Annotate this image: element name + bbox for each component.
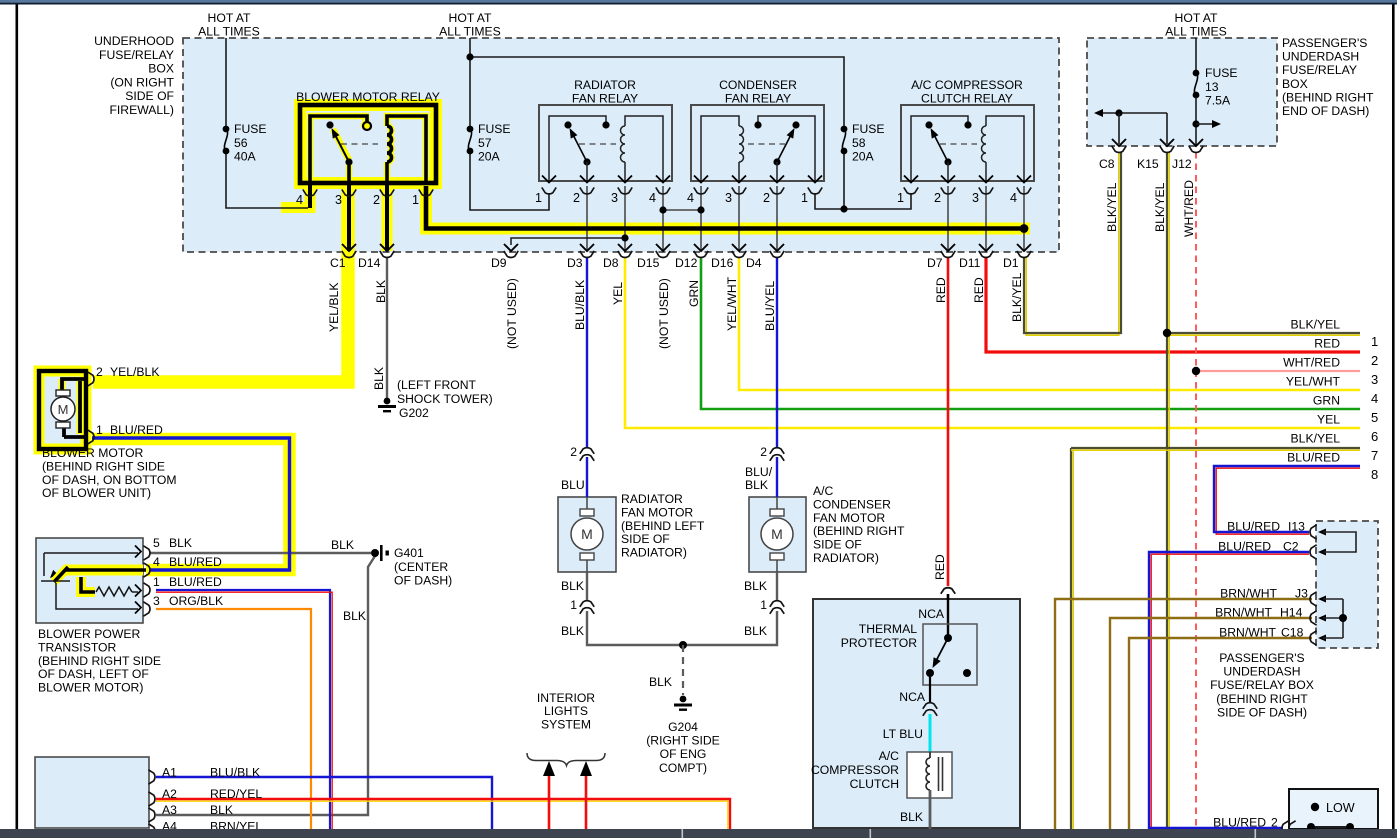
svg-text:BRN/WHT: BRN/WHT bbox=[1220, 587, 1277, 601]
wire WHT/RED: J12 dashed down to bottom bbox=[1195, 152, 1197, 829]
svg-text:(BEHIND RIGHT SIDE: (BEHIND RIGHT SIDE bbox=[38, 654, 161, 668]
wire BLU/RED: C2 down to LOW switch pin 2 bbox=[1151, 554, 1309, 830]
svg-text:K15: K15 bbox=[1137, 157, 1159, 171]
highlight band: hot feed bus from blower relay pin 1 bbox=[426, 188, 1030, 229]
svg-text:BLU/RED: BLU/RED bbox=[169, 575, 222, 589]
svg-text:5: 5 bbox=[1371, 410, 1378, 425]
svg-text:2: 2 bbox=[373, 193, 380, 207]
svg-text:FUSE: FUSE bbox=[234, 122, 267, 136]
svg-text:BLK: BLK bbox=[745, 478, 768, 492]
svg-text:BLU/RED: BLU/RED bbox=[169, 555, 222, 569]
svg-text:(ON RIGHT: (ON RIGHT bbox=[110, 75, 174, 89]
svg-text:2: 2 bbox=[934, 191, 941, 205]
ground G204 bbox=[680, 696, 687, 703]
wire RED: D11 to row 2 bbox=[986, 257, 1360, 352]
wire: condenser relay pin 3 to D16 bbox=[738, 186, 740, 251]
svg-text:OF DASH, ON BOTTOM: OF DASH, ON BOTTOM bbox=[42, 473, 177, 487]
svg-text:RED/YEL: RED/YEL bbox=[210, 787, 262, 801]
svg-text:BLU/YEL: BLU/YEL bbox=[763, 281, 777, 331]
svg-text:ALL TIMES: ALL TIMES bbox=[439, 25, 501, 39]
wire BLK/YEL: row 7 from bottom vertical to edge bbox=[1072, 450, 1074, 829]
connector exits at underhood box bottom bbox=[342, 244, 356, 251]
svg-text:END OF DASH): END OF DASH) bbox=[1282, 104, 1369, 118]
svg-text:4: 4 bbox=[296, 193, 303, 207]
highlight glow: blower motor relay box bbox=[300, 105, 436, 183]
svg-text:(CENTER: (CENTER bbox=[394, 560, 448, 574]
svg-text:(BEHIND LEFT: (BEHIND LEFT bbox=[621, 519, 705, 533]
svg-text:M: M bbox=[58, 402, 69, 417]
wire: C8 exit bbox=[1118, 113, 1120, 144]
svg-text:OF DASH): OF DASH) bbox=[394, 574, 452, 588]
blower power transistor box bbox=[36, 538, 143, 623]
svg-text:RED: RED bbox=[972, 277, 986, 303]
a/c compressor clutch box and coil bbox=[907, 752, 952, 798]
junction: fuse 58 node bbox=[840, 205, 847, 212]
right box connectors I13 C2 bbox=[1310, 525, 1317, 539]
wire BLK dashed to G204 bbox=[682, 645, 684, 695]
svg-text:3: 3 bbox=[972, 191, 979, 205]
wire: condenser relay pin 2 to D4 bbox=[776, 186, 778, 251]
highlight band: relay pin 4 corner to fuse 56 feed bbox=[281, 186, 310, 208]
junction: bus to a/c relay pin 4 / D1 bbox=[1020, 224, 1029, 233]
svg-text:PASSENGER'S: PASSENGER'S bbox=[1282, 36, 1367, 50]
wire BRN/YEL: A4 row (under bar) bbox=[156, 830, 420, 832]
wire BLK: radiator motor to ground junction bbox=[586, 572, 588, 601]
svg-text:I13: I13 bbox=[1288, 520, 1305, 534]
svg-text:BLU/RED: BLU/RED bbox=[110, 423, 163, 437]
svg-text:BLU/RED: BLU/RED bbox=[1218, 540, 1271, 554]
svg-text:UNDERDASH: UNDERDASH bbox=[1282, 50, 1359, 64]
wire: a/c relay pin 2 to D7 bbox=[947, 186, 949, 251]
svg-text:(LEFT FRONT: (LEFT FRONT bbox=[397, 378, 477, 392]
svg-text:BLK/YEL: BLK/YEL bbox=[1153, 182, 1167, 232]
junction: J12 row 3 node bbox=[1192, 367, 1200, 375]
svg-text:RADIATOR: RADIATOR bbox=[621, 492, 683, 506]
svg-text:D1: D1 bbox=[1003, 256, 1019, 270]
svg-text:J12: J12 bbox=[1172, 157, 1192, 171]
svg-text:WHT/RED: WHT/RED bbox=[1182, 180, 1196, 237]
blower motor (highlighted) symbol bbox=[39, 371, 86, 449]
svg-text:M: M bbox=[581, 526, 593, 542]
wire WHT/RED: row 3 to edge bbox=[1200, 370, 1360, 372]
svg-text:5: 5 bbox=[153, 536, 160, 550]
relay: radiator fan relay with pins 1,2,3,4 bbox=[539, 105, 672, 181]
junction: D9-D8 node bbox=[621, 234, 628, 241]
inline connector 1 below radiator fan motor bbox=[580, 601, 594, 607]
svg-text:HOT AT: HOT AT bbox=[1175, 11, 1218, 25]
svg-text:BLU/BLK: BLU/BLK bbox=[210, 766, 260, 780]
svg-text:RED: RED bbox=[1314, 337, 1340, 351]
wire: D9 jog to D8 node bbox=[511, 238, 625, 245]
svg-text:D16: D16 bbox=[711, 256, 734, 270]
svg-text:BLK: BLK bbox=[372, 367, 386, 390]
thermal protector switch bbox=[944, 634, 952, 642]
wire BLK: transistor pin 5 to G401 bbox=[150, 552, 371, 554]
svg-text:A/C COMPRESSOR: A/C COMPRESSOR bbox=[911, 78, 1023, 92]
svg-text:D14: D14 bbox=[358, 256, 381, 270]
junction: motor grounds bbox=[679, 641, 687, 649]
svg-text:LT BLU: LT BLU bbox=[883, 727, 923, 741]
svg-text:BLK: BLK bbox=[331, 538, 354, 552]
svg-text:4: 4 bbox=[1371, 391, 1378, 406]
svg-text:ALL TIMES: ALL TIMES bbox=[198, 25, 260, 39]
svg-text:(NOT USED): (NOT USED) bbox=[657, 278, 671, 349]
svg-text:(BEHIND RIGHT: (BEHIND RIGHT bbox=[1282, 90, 1374, 104]
svg-text:1: 1 bbox=[535, 191, 542, 205]
wire BRN/WHT: C18 row and bottom vertical bbox=[1129, 638, 1312, 829]
motor symbol: condenser fan motor bbox=[776, 497, 778, 510]
svg-text:20A: 20A bbox=[852, 150, 875, 164]
svg-text:D15: D15 bbox=[637, 256, 660, 270]
svg-text:CONDENSER: CONDENSER bbox=[813, 497, 891, 511]
svg-text:BLK/YEL: BLK/YEL bbox=[1010, 272, 1024, 322]
svg-text:RADIATOR): RADIATOR) bbox=[813, 551, 879, 565]
svg-text:D11: D11 bbox=[959, 256, 981, 270]
svg-text:8: 8 bbox=[1371, 467, 1378, 482]
wire BRN/WHT: J3 row and bottom vertical bbox=[1055, 599, 1312, 829]
highlight band: YEL/BLK wire relay pin3-C1 to blower motor pin 2 bbox=[93, 186, 348, 382]
svg-text:FAN MOTOR: FAN MOTOR bbox=[813, 511, 885, 525]
svg-text:HOT AT: HOT AT bbox=[208, 11, 251, 25]
svg-text:(BEHIND RIGHT: (BEHIND RIGHT bbox=[1216, 692, 1308, 706]
wire: HOT AT ALL TIMES feed 2 to fuse 57 bbox=[469, 38, 471, 126]
LOW box connector 2 bbox=[1282, 821, 1289, 835]
svg-text:LIGHTS: LIGHTS bbox=[544, 704, 588, 718]
relay: a/c compressor clutch relay with pins 1,2,3,4 bbox=[901, 105, 1034, 181]
svg-text:WHT/RED: WHT/RED bbox=[1283, 356, 1340, 370]
inline connector 2 above radiator fan motor bbox=[580, 448, 594, 454]
svg-text:4: 4 bbox=[153, 555, 160, 569]
svg-text:BLOWER MOTOR RELAY: BLOWER MOTOR RELAY bbox=[296, 90, 440, 104]
wire RED: D7 to thermal protector bbox=[947, 257, 950, 586]
svg-text:BLK: BLK bbox=[169, 536, 192, 550]
svg-text:UNDERHOOD: UNDERHOOD bbox=[94, 34, 174, 48]
highlight band: relay pin 2 to D14 bbox=[382, 186, 393, 251]
junction: feed 2 branch bbox=[466, 53, 473, 60]
svg-text:2: 2 bbox=[573, 191, 580, 205]
wire YEL: D8 to row 6 bbox=[625, 257, 1360, 428]
fuse 13 7.5A bbox=[1195, 38, 1197, 71]
svg-text:CLUTCH RELAY: CLUTCH RELAY bbox=[921, 92, 1013, 106]
passenger underdash fuse/relay box top-right (dashed, light blue) bbox=[1087, 38, 1277, 146]
svg-text:SIDE OF: SIDE OF bbox=[621, 532, 670, 546]
wire YEL/WHT: D16 to row 4 bbox=[739, 257, 1360, 390]
bottom-left component box bbox=[35, 757, 149, 828]
a/c condenser fan motor box bbox=[749, 497, 806, 572]
svg-text:3: 3 bbox=[153, 594, 160, 608]
svg-text:BLOWER POWER: BLOWER POWER bbox=[38, 627, 140, 641]
thermal protector / compressor clutch box (light blue) bbox=[813, 599, 1020, 828]
svg-text:1: 1 bbox=[96, 423, 103, 437]
svg-text:RADIATOR: RADIATOR bbox=[574, 78, 636, 92]
svg-text:BLK/YEL: BLK/YEL bbox=[1105, 182, 1119, 232]
svg-text:BLK: BLK bbox=[744, 624, 767, 638]
svg-text:D8: D8 bbox=[603, 256, 619, 270]
wire: radiator relay pin 2 to D3 bbox=[586, 186, 588, 251]
svg-text:BLU/RED: BLU/RED bbox=[1213, 816, 1266, 830]
svg-text:A/C: A/C bbox=[813, 484, 834, 498]
svg-text:YEL: YEL bbox=[611, 282, 625, 305]
svg-text:YEL/BLK: YEL/BLK bbox=[110, 365, 159, 379]
svg-text:BLK: BLK bbox=[343, 609, 366, 623]
svg-text:FUSE/RELAY BOX: FUSE/RELAY BOX bbox=[1210, 678, 1314, 692]
thermal protector internal wire bbox=[947, 594, 949, 638]
svg-text:2: 2 bbox=[1271, 816, 1278, 830]
LOW box contents bbox=[1311, 803, 1319, 811]
svg-text:A1: A1 bbox=[162, 766, 177, 780]
svg-text:COMPRESSOR: COMPRESSOR bbox=[811, 763, 899, 777]
svg-text:YEL: YEL bbox=[1317, 413, 1340, 427]
svg-text:(BEHIND RIGHT: (BEHIND RIGHT bbox=[813, 524, 905, 538]
svg-text:NCA: NCA bbox=[899, 690, 926, 704]
wire BLK/YEL: D1 down, right, up to C8 bbox=[1026, 152, 1119, 335]
svg-text:2: 2 bbox=[570, 445, 577, 459]
junction and arrow right of fuse 13 bbox=[1192, 120, 1199, 127]
fuse 56 40A bbox=[223, 126, 230, 133]
svg-text:BLK: BLK bbox=[561, 624, 584, 638]
bus black core: blower relay pin1 hot feed bbox=[426, 186, 1024, 229]
ground G202 bbox=[384, 398, 391, 405]
svg-text:TRANSISTOR: TRANSISTOR bbox=[38, 640, 117, 654]
fuse 57 20A bbox=[467, 126, 474, 133]
wire GRN: D12 to row 5 bbox=[701, 257, 1360, 409]
bottom task bar bbox=[0, 829, 1397, 838]
svg-text:1: 1 bbox=[760, 598, 767, 612]
svg-text:4: 4 bbox=[1010, 191, 1017, 205]
right box connectors J3 H14 C18 bbox=[1310, 592, 1317, 606]
svg-text:BLK: BLK bbox=[210, 803, 233, 817]
wire BLU/RED: row 8 to I13 bbox=[1216, 468, 1360, 534]
wire BLU/BLK: A1 row bbox=[156, 777, 492, 829]
svg-text:56: 56 bbox=[234, 136, 248, 150]
svg-text:1: 1 bbox=[897, 191, 904, 205]
svg-text:YEL/WHT: YEL/WHT bbox=[725, 276, 739, 331]
svg-text:NCA: NCA bbox=[918, 607, 945, 621]
wire: radiator relay pin 4 / condenser relay pin 4 tie and down to D15/D12 bbox=[662, 186, 664, 251]
wire: branch feed to fuse 58 bbox=[470, 57, 844, 126]
svg-text:FUSE/RELAY: FUSE/RELAY bbox=[99, 48, 174, 62]
blower power transistor internals bbox=[44, 552, 138, 554]
svg-text:D12: D12 bbox=[675, 256, 698, 270]
svg-text:FAN RELAY: FAN RELAY bbox=[725, 92, 791, 106]
motor symbol: radiator fan motor bbox=[586, 497, 588, 510]
svg-text:BLK/YEL: BLK/YEL bbox=[1291, 432, 1341, 446]
svg-text:A2: A2 bbox=[162, 787, 177, 801]
svg-text:BRN/WHT: BRN/WHT bbox=[1219, 626, 1276, 640]
highlight band: BLU/RED blower motor pin1 to transistor pin 4 bbox=[92, 439, 290, 570]
resistor inside transistor box bbox=[96, 587, 132, 596]
svg-text:4: 4 bbox=[649, 191, 656, 205]
svg-text:BLOWER MOTOR): BLOWER MOTOR) bbox=[38, 681, 143, 695]
svg-text:40A: 40A bbox=[234, 150, 257, 164]
svg-text:BOX: BOX bbox=[1282, 77, 1308, 91]
svg-text:1: 1 bbox=[570, 598, 577, 612]
svg-text:FAN MOTOR: FAN MOTOR bbox=[621, 505, 693, 519]
svg-text:G204: G204 bbox=[668, 720, 698, 734]
svg-text:FUSE: FUSE bbox=[1205, 66, 1238, 80]
relay: condenser fan relay with pins 4,3,2,1 bbox=[691, 105, 824, 181]
relay: blower motor relay (highlighted) with pins 4,3,2,1 bbox=[308, 183, 312, 208]
transistor pin connectors bbox=[143, 546, 150, 560]
svg-text:D3: D3 bbox=[567, 256, 583, 270]
thermal protector switch box bbox=[923, 624, 977, 685]
wire: a/c relay pin 4 to D1 through bus junction bbox=[1023, 186, 1025, 251]
svg-text:COMPT): COMPT) bbox=[659, 761, 707, 775]
svg-text:BLU/RED: BLU/RED bbox=[1227, 520, 1280, 534]
svg-text:1: 1 bbox=[801, 191, 808, 205]
wire: fuse 56 to blower relay pin 4 bbox=[226, 154, 308, 208]
svg-text:SHOCK TOWER): SHOCK TOWER) bbox=[397, 392, 493, 406]
wire BLK/YEL: row 1 to edge bbox=[1167, 334, 1360, 336]
svg-text:3: 3 bbox=[725, 191, 732, 205]
wire RED/YEL: A2 row bbox=[156, 799, 730, 829]
svg-text:FUSE/RELAY: FUSE/RELAY bbox=[1282, 63, 1357, 77]
svg-text:3: 3 bbox=[611, 191, 618, 205]
highlight glow: blower motor box bbox=[39, 371, 86, 449]
svg-text:HOT AT: HOT AT bbox=[449, 11, 492, 25]
svg-text:UNDERDASH: UNDERDASH bbox=[1223, 665, 1300, 679]
NCA inline connector bbox=[923, 703, 937, 709]
connector exits at passenger box bottom: C8 K15 J12 bbox=[1112, 139, 1126, 146]
wire BLU/BLK: D3 to radiator fan motor bbox=[586, 257, 588, 448]
wire BLK: G401 down to A3 row bbox=[156, 556, 375, 815]
svg-text:CONDENSER: CONDENSER bbox=[719, 78, 797, 92]
top browser bar bbox=[0, 0, 1397, 3]
svg-text:PASSENGER'S: PASSENGER'S bbox=[1219, 651, 1304, 665]
blower switch LOW box bottom-right bbox=[1289, 789, 1378, 829]
svg-text:3: 3 bbox=[335, 193, 342, 207]
svg-text:M: M bbox=[771, 526, 783, 542]
svg-text:BLU/BLK: BLU/BLK bbox=[573, 280, 587, 330]
svg-text:C1: C1 bbox=[330, 256, 346, 270]
fuse 58 20A bbox=[841, 126, 848, 133]
svg-text:(NOT USED): (NOT USED) bbox=[505, 278, 519, 349]
svg-text:(RIGHT SIDE: (RIGHT SIDE bbox=[646, 734, 720, 748]
ground G401 bbox=[371, 549, 379, 557]
svg-text:G202: G202 bbox=[399, 406, 429, 420]
svg-text:7.5A: 7.5A bbox=[1205, 94, 1231, 108]
svg-text:OF BLOWER UNIT): OF BLOWER UNIT) bbox=[42, 486, 151, 500]
wire BLK below clutch bbox=[929, 790, 932, 829]
arrow: interior lights feed right bbox=[580, 761, 592, 776]
wire: fuse 57 to radiator fan relay pin 1 bbox=[470, 154, 549, 210]
svg-text:2: 2 bbox=[760, 445, 767, 459]
svg-text:3: 3 bbox=[1371, 372, 1378, 387]
radiator fan motor box bbox=[558, 497, 616, 572]
svg-text:FAN RELAY: FAN RELAY bbox=[572, 92, 638, 106]
svg-text:BLK: BLK bbox=[900, 810, 923, 824]
svg-text:FUSE: FUSE bbox=[478, 122, 511, 136]
wire BLK: D14 to ground G202 bbox=[386, 257, 388, 399]
svg-text:13: 13 bbox=[1205, 80, 1219, 94]
svg-text:D9: D9 bbox=[491, 256, 507, 270]
svg-text:D7: D7 bbox=[927, 256, 943, 270]
wire ORG/BLK: transistor pin 3 down bbox=[156, 609, 311, 829]
inline connector 1 below condenser fan motor bbox=[770, 601, 784, 607]
svg-text:BOX: BOX bbox=[148, 62, 174, 76]
underhood fuse/relay box (dashed, light blue) bbox=[183, 38, 1059, 252]
svg-text:PROTECTOR: PROTECTOR bbox=[841, 636, 917, 650]
junction: K15 row 1 node bbox=[1163, 329, 1171, 337]
svg-text:LOW: LOW bbox=[1326, 801, 1355, 815]
svg-text:C2: C2 bbox=[1283, 540, 1299, 554]
svg-text:58: 58 bbox=[852, 136, 866, 150]
svg-text:BLK: BLK bbox=[744, 579, 767, 593]
right page border bbox=[1392, 5, 1395, 830]
svg-text:INTERIOR: INTERIOR bbox=[537, 691, 595, 705]
feed line with left arrow in passenger box bbox=[1101, 112, 1167, 114]
svg-text:BLK: BLK bbox=[561, 579, 584, 593]
svg-text:FUSE: FUSE bbox=[852, 122, 885, 136]
svg-text:H14: H14 bbox=[1280, 606, 1303, 620]
passenger underdash fuse/relay box right-middle (dashed, light blue) bbox=[1316, 521, 1378, 648]
blower motor pin 1 connector bbox=[87, 430, 94, 444]
svg-text:BLU: BLU bbox=[561, 478, 585, 492]
wire BLU/YEL: D4 to condenser fan motor bbox=[776, 257, 778, 448]
svg-text:BLU/: BLU/ bbox=[745, 465, 773, 479]
wire RED: interior lights feeds bbox=[548, 775, 551, 829]
wire RED core thermal entry bbox=[947, 594, 949, 599]
wire: HOT AT ALL TIMES feed 1 to fuse 56 bbox=[225, 38, 227, 126]
svg-text:RED: RED bbox=[933, 554, 947, 580]
wire LT BLU bbox=[929, 714, 932, 753]
wire: radiator relay pin 3 to D8 bbox=[624, 186, 626, 251]
svg-text:2: 2 bbox=[96, 365, 103, 379]
svg-text:A3: A3 bbox=[162, 803, 177, 817]
svg-text:1: 1 bbox=[153, 575, 160, 589]
wire BLK/YEL: K15 down to bottom with row 1 branch bbox=[1168, 152, 1170, 829]
svg-text:GRN: GRN bbox=[1313, 394, 1340, 408]
svg-text:J3: J3 bbox=[1295, 587, 1308, 601]
svg-text:CLUTCH: CLUTCH bbox=[850, 777, 899, 791]
svg-text:ORG/BLK: ORG/BLK bbox=[169, 594, 223, 608]
svg-text:THERMAL: THERMAL bbox=[859, 622, 917, 636]
svg-text:A/C: A/C bbox=[879, 749, 900, 763]
transistor symbol highlighted bbox=[54, 567, 68, 582]
svg-text:RADIATOR): RADIATOR) bbox=[621, 546, 687, 560]
interior lights system brace bbox=[527, 753, 605, 766]
svg-text:SYSTEM: SYSTEM bbox=[541, 717, 591, 731]
svg-text:D4: D4 bbox=[746, 256, 762, 270]
svg-text:BLK: BLK bbox=[374, 280, 388, 303]
bottom-left box pin connectors A1-A4 bbox=[148, 770, 155, 784]
wire: a/c relay pin 3 to D11 bbox=[985, 186, 987, 251]
svg-text:2: 2 bbox=[763, 191, 770, 205]
svg-text:YEL/WHT: YEL/WHT bbox=[1286, 375, 1341, 389]
svg-text:GRN: GRN bbox=[687, 280, 701, 307]
svg-text:4: 4 bbox=[687, 191, 694, 205]
svg-text:20A: 20A bbox=[478, 150, 501, 164]
svg-text:1: 1 bbox=[412, 193, 419, 207]
svg-text:YEL/BLK: YEL/BLK bbox=[327, 283, 341, 332]
left page border bbox=[16, 5, 19, 830]
svg-text:1: 1 bbox=[1371, 334, 1378, 349]
thermal protector RED entry connector bbox=[941, 588, 955, 594]
svg-text:OF ENG: OF ENG bbox=[660, 747, 707, 761]
svg-text:G401: G401 bbox=[394, 546, 424, 560]
svg-text:2: 2 bbox=[1371, 353, 1378, 368]
arrow: interior lights feed left bbox=[543, 761, 555, 776]
wire BLU/RED: transistor pin 1 down bbox=[156, 590, 330, 829]
wire BLK: condenser motor to ground junction bbox=[776, 572, 778, 601]
svg-text:BLK: BLK bbox=[649, 675, 672, 689]
svg-text:BRN/WHT: BRN/WHT bbox=[1215, 606, 1272, 620]
svg-text:FIREWALL): FIREWALL) bbox=[109, 103, 174, 117]
svg-text:C18: C18 bbox=[1281, 626, 1304, 640]
svg-text:(BEHIND RIGHT SIDE: (BEHIND RIGHT SIDE bbox=[42, 459, 165, 473]
svg-text:7: 7 bbox=[1371, 448, 1378, 463]
svg-text:SIDE OF DASH): SIDE OF DASH) bbox=[1217, 705, 1307, 719]
